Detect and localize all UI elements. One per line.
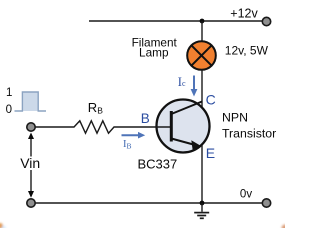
- svg-text:BC337: BC337: [138, 156, 178, 171]
- svg-text:NPN: NPN: [222, 111, 248, 125]
- svg-text:0v: 0v: [240, 189, 252, 201]
- svg-text:0: 0: [6, 104, 12, 116]
- svg-text:Lamp: Lamp: [139, 45, 169, 59]
- svg-text:IB: IB: [123, 139, 132, 151]
- svg-text:Transistor: Transistor: [222, 127, 276, 141]
- svg-text:Vin: Vin: [20, 155, 40, 171]
- svg-text:1: 1: [6, 87, 12, 99]
- svg-text:B: B: [141, 111, 150, 126]
- svg-text:C: C: [206, 92, 216, 108]
- svg-text:12v, 5W: 12v, 5W: [225, 44, 269, 58]
- svg-text:E: E: [206, 145, 215, 161]
- svg-text:+12v: +12v: [230, 7, 258, 21]
